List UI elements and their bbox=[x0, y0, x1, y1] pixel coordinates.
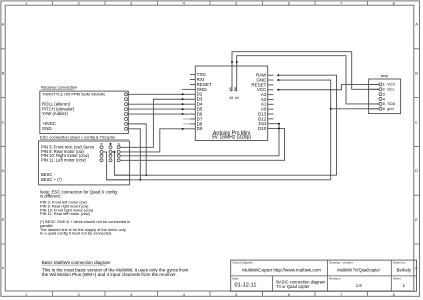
ESC row labels bbox=[41, 145, 95, 182]
junction +5V rail at receiver bbox=[145, 174, 147, 176]
junction D11 corner bbox=[278, 123, 280, 125]
GND rail horizontal bbox=[107, 179, 331, 181]
svg-text:Berkely: Berkely bbox=[397, 268, 412, 273]
U1 top pin name A5 bbox=[229, 87, 233, 91]
svg-text:A5: A5 bbox=[229, 96, 233, 100]
U1 left pin stubs bbox=[190, 75, 196, 129]
junction VCC pin bbox=[277, 89, 279, 91]
junction on D10 wire bbox=[278, 128, 280, 130]
svg-text:6: 6 bbox=[383, 107, 385, 111]
svg-text:Circuit Diagram: Circuit Diagram bbox=[232, 261, 253, 265]
svg-text:A: A bbox=[2, 22, 5, 27]
junction on D2 wire bbox=[182, 93, 184, 95]
svg-text:SDA: SDA bbox=[387, 102, 395, 106]
wire GND rail branch to WMP pin6 gnd bbox=[331, 108, 379, 110]
svg-text:5V 16MHz (328p): 5V 16MHz (328p) bbox=[212, 135, 252, 141]
svg-text:C: C bbox=[2, 119, 5, 124]
ESC connector block box bbox=[39, 135, 130, 185]
receiver connector J1 box bbox=[40, 84, 129, 133]
svg-text:1: 1 bbox=[383, 83, 385, 87]
wire receiver +5VDC to +5V rail bbox=[128, 124, 147, 175]
+5V rail horizontal bbox=[114, 174, 336, 176]
junction on D3 wire bbox=[182, 98, 184, 100]
U1 top pins A5 A4 bbox=[232, 62, 237, 91]
title block field labels bbox=[232, 261, 406, 281]
svg-text:BESC + (*): BESC + (*) bbox=[41, 177, 62, 182]
svg-text:ESC connection Quad + config: ESC connection Quad + config & Tricopter bbox=[40, 135, 116, 140]
svg-text:In a quad config it must not b: In a quad config it must not be connecte… bbox=[40, 231, 112, 236]
svg-text:wmp: wmp bbox=[381, 74, 389, 78]
svg-text:D10: D10 bbox=[258, 126, 267, 131]
ESC column headers bbox=[100, 142, 120, 147]
junction A4 pin bbox=[236, 61, 238, 63]
svg-text:Drawn by: Drawn by bbox=[393, 261, 406, 265]
svg-text:PIN 11: Rear left motor (ccw): PIN 11: Rear left motor (ccw) bbox=[40, 211, 91, 216]
title block bbox=[231, 260, 417, 291]
svg-text:5: 5 bbox=[383, 102, 385, 106]
svg-text:YAW (rudder): YAW (rudder) bbox=[42, 111, 68, 116]
wire D7 dashed supply bbox=[183, 118, 190, 120]
wire A4 to WMP pin5 SDA bbox=[237, 56, 379, 104]
title block values bbox=[235, 268, 412, 289]
U1 top pin numbers bbox=[229, 96, 239, 100]
svg-text:1.9: 1.9 bbox=[356, 283, 363, 288]
svg-text:B: B bbox=[415, 71, 418, 76]
svg-text:E: E bbox=[2, 217, 5, 222]
wire GND pin stub segment bbox=[182, 88, 190, 90]
wire PITCH to D5 bbox=[128, 108, 190, 110]
U1 right pin stubs bbox=[268, 75, 274, 128]
note text BESC warning bbox=[40, 219, 130, 235]
wire ESC S3 to D11 bbox=[120, 124, 279, 156]
svg-text:B: B bbox=[2, 71, 5, 76]
svg-text:4: 4 bbox=[383, 97, 385, 101]
wire A5 to WMP pin2 SCL bbox=[232, 52, 379, 90]
svg-text:MultiWiiCopter http://www.mult: MultiWiiCopter http://www.multiwii.com bbox=[242, 268, 321, 273]
svg-text:A5: A5 bbox=[229, 87, 233, 91]
svg-text:A: A bbox=[415, 22, 418, 27]
note text quad x config bbox=[40, 189, 118, 216]
wire GND right to GND rail bbox=[278, 80, 330, 180]
board U1 Arduino Pro Mini box bbox=[195, 66, 267, 141]
junction on D4 wire bbox=[182, 103, 184, 105]
svg-text:D: D bbox=[415, 168, 418, 173]
wire receiver GND to GND rail bbox=[128, 129, 141, 180]
svg-text:GND: GND bbox=[42, 126, 52, 131]
junction GND right pin bbox=[277, 79, 279, 81]
svg-text:C: C bbox=[415, 119, 418, 124]
junction GND rail at receiver bbox=[139, 179, 141, 181]
junction on D5 wire bbox=[182, 108, 184, 110]
svg-text:3: 3 bbox=[383, 92, 385, 96]
svg-text:E: E bbox=[415, 217, 418, 222]
U1 left pin names bbox=[197, 72, 212, 131]
svg-text:the Wii Motion Plus (WM+) and: the Wii Motion Plus (WM+) and 4 input ch… bbox=[42, 272, 177, 277]
junction on D6 wire bbox=[182, 113, 184, 115]
wire VCC to WMP pin1 VCC bbox=[278, 84, 379, 89]
svg-text:Drawing - number: Drawing - number bbox=[329, 261, 353, 265]
svg-text:A4: A4 bbox=[234, 87, 238, 91]
svg-text:Date: Date bbox=[232, 276, 239, 280]
wire ROLL to D4 bbox=[128, 103, 190, 105]
wire RAW to +5V rail bbox=[278, 75, 336, 175]
svg-text:SCL: SCL bbox=[387, 88, 394, 92]
svg-text:THROTTLE OR PPM SUM SIGNAL: THROTTLE OR PPM SUM SIGNAL bbox=[42, 92, 107, 97]
junction on D9 wire bbox=[182, 128, 184, 130]
wire YAW to D6 bbox=[128, 113, 190, 115]
wire D8 dashed supply bbox=[183, 123, 190, 125]
junction ESC plus column bbox=[113, 151, 115, 153]
wire ESC S1 servo signal to D3 bbox=[120, 99, 190, 147]
ESC pin pads 3x4 bbox=[100, 146, 120, 162]
gyro connector WMP box bbox=[369, 74, 401, 113]
junction RAW pin bbox=[277, 74, 279, 76]
svg-text:MultiWii Tri/Quadcopter: MultiWii Tri/Quadcopter bbox=[337, 268, 380, 273]
wire THROTTLE to D2 bbox=[128, 93, 190, 95]
wire ESC S2 to D9 bbox=[120, 129, 190, 152]
svg-text:Tri or Quad copter: Tri or Quad copter bbox=[276, 284, 310, 289]
WMP pin pads and numbers bbox=[379, 83, 396, 111]
svg-text:Sheet: Sheet bbox=[393, 276, 401, 280]
receiver pin labels bbox=[42, 92, 107, 132]
U1 top pin name A4 bbox=[234, 87, 238, 91]
svg-text:gnd: gnd bbox=[387, 107, 393, 111]
svg-text:A4: A4 bbox=[235, 96, 239, 100]
WMP pin entry stubs bbox=[369, 84, 379, 108]
svg-text:VCC: VCC bbox=[387, 83, 395, 87]
U1 right pin names bbox=[251, 73, 267, 131]
svg-text:Basic MultiWii connection diag: Basic MultiWii connection diagram bbox=[42, 260, 111, 265]
note text basic diagram description bbox=[42, 260, 189, 277]
svg-text:PIN 11: Left motor (ccw): PIN 11: Left motor (ccw) bbox=[41, 158, 86, 163]
svg-text:D9: D9 bbox=[197, 126, 203, 131]
wire ESC plus column to +5V rail bbox=[112, 152, 130, 175]
wire ESC minus column to GND rail bbox=[103, 152, 130, 180]
receiver pin pads bbox=[125, 93, 128, 131]
svg-text:D: D bbox=[2, 168, 5, 173]
svg-text:01-12-11: 01-12-11 bbox=[235, 282, 257, 288]
svg-text:2: 2 bbox=[383, 88, 385, 92]
svg-text:is different:: is different: bbox=[40, 193, 61, 198]
wire ESC S4 to D10 bbox=[120, 129, 284, 161]
junction GND branch to WMP gnd bbox=[330, 108, 332, 110]
svg-text:Revision: Revision bbox=[329, 276, 341, 280]
svg-text:Receiver connection: Receiver connection bbox=[41, 84, 77, 89]
junction A5 pin bbox=[231, 61, 233, 63]
